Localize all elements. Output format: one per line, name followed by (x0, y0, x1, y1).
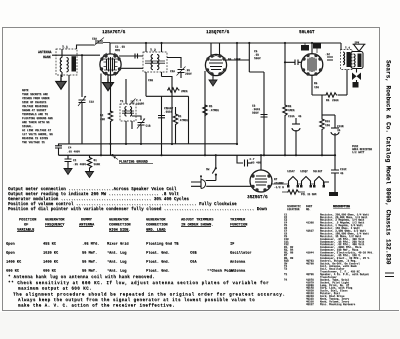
svg-text:Antenna: Antenna (230, 270, 246, 274)
svg-text:470MMF: 470MMF (274, 182, 284, 185)
parts row 4 (284, 220, 365, 224)
svg-text:30: 30 (337, 129, 341, 132)
svg-text:LOCATION: LOCATION (287, 208, 300, 211)
svg-text:50L6GT: 50L6GT (313, 170, 323, 173)
svg-text:** Check sensitivity at 600 KC: ** Check sensitivity at 600 KC. If low, … (8, 281, 269, 286)
parts row 19 (284, 261, 360, 265)
svg-text:.05 400V: .05 400V (67, 150, 80, 153)
junction R5 at bus (204, 154, 206, 156)
svg-text:* Antenna hank lug on antenna: * Antenna hank lug on antenna coil with … (8, 275, 155, 280)
rectifier tube V4 35Z5GT (250, 170, 272, 192)
AC plug (191, 175, 206, 188)
wire T1 to bus (68, 75, 70, 144)
oscillator coil T3 (120, 79, 136, 144)
svg-text:Position of dial pointer with: Position of dial pointer with variable c… (8, 207, 267, 212)
tube V3 50L6GT envelope (301, 54, 323, 76)
svg-text:Open: Open (6, 252, 15, 256)
AVC line (146, 95, 189, 97)
wire V1 to T2 plate (119, 56, 143, 68)
svg-text:455 KC: 455 KC (43, 243, 57, 247)
svg-text:Float. Gnd.: Float. Gnd. (146, 260, 170, 265)
long bus wire upper (58, 143, 237, 145)
svg-text:VIEWED FROM UNDER: VIEWED FROM UNDER (22, 97, 50, 100)
parts row 15 (284, 250, 374, 254)
trimmer capacitor C4 (130, 99, 145, 106)
svg-text:500K: 500K (94, 163, 101, 166)
svg-text:*Ant. Lug: *Ant. Lug (107, 260, 126, 265)
border frame top (2, 27, 380, 29)
parts row 17 (284, 256, 370, 260)
svg-text:.47MEG: .47MEG (209, 109, 219, 112)
output transformer T4 (341, 43, 353, 95)
parts row 5 (284, 223, 363, 227)
heater chevron 1 (287, 177, 299, 188)
table footnotes (8, 275, 286, 309)
svg-text:GENERATOR: GENERATOR (146, 218, 166, 222)
svg-text:500V: 500V (254, 57, 261, 60)
parts row 33 (306, 299, 350, 303)
parts row 14 (284, 248, 359, 252)
svg-text:R9: R9 (314, 82, 318, 85)
parts list header (287, 205, 350, 211)
svg-text:500V: 500V (167, 107, 174, 110)
svg-text:Misc. Mounting Hardware: Misc. Mounting Hardware (320, 302, 356, 306)
electrolytic C10A (288, 115, 302, 155)
junction dot T2 lead right (160, 42, 162, 44)
wire T1 top to trimmer (77, 45, 95, 49)
svg-text:R6: R6 (326, 99, 330, 102)
svg-text:HANK: HANK (43, 55, 51, 59)
junction T3 at B- line (125, 143, 127, 145)
capacitor C6 (170, 67, 192, 79)
resistor R2 (110, 68, 112, 112)
svg-text:50L6GT: 50L6GT (299, 30, 315, 35)
junction R8 at bus (284, 154, 286, 156)
long bus wire lower B- (59, 154, 336, 156)
junction V1 cathode at bus (100, 154, 102, 156)
heater chevron 3 (313, 177, 325, 188)
border frame right (379, 27, 381, 310)
svg-text:ANTENNA: ANTENNA (38, 50, 51, 54)
ground below R1 (86, 169, 94, 178)
svg-text:12SQ7GT/G: 12SQ7GT/G (206, 30, 230, 35)
top rail wire (110, 42, 341, 44)
svg-text:40: 40 (340, 172, 344, 175)
wire V4 top to bus (260, 155, 262, 170)
speaker magnet block (353, 82, 359, 88)
junction R10 at bus (321, 154, 323, 156)
antenna coil T1 (56, 45, 77, 77)
resistor R6 (312, 95, 325, 118)
parts row 6 (284, 226, 360, 230)
resistor R8 (284, 43, 286, 104)
parts row 32 (306, 297, 350, 301)
ground below tube V1 (107, 75, 109, 79)
parts row 12 (284, 242, 365, 246)
svg-text:PIL 35 OHM: PIL 35 OHM (301, 193, 317, 196)
parts row 1 (284, 212, 369, 216)
svg-text:1620 KC: 1620 KC (43, 252, 59, 256)
svg-text:150: 150 (314, 86, 319, 89)
svg-text:R1: R1 (94, 159, 98, 162)
svg-text:GENERATOR: GENERATOR (109, 218, 129, 222)
svg-text:20K: 20K (100, 118, 105, 121)
svg-text:C1A: C1A (89, 101, 94, 104)
junction R4 at B- line (171, 143, 173, 145)
capacitor C5 (158, 96, 173, 155)
svg-text:OF: OF (24, 223, 28, 227)
svg-text:C6B: C6B (190, 252, 197, 256)
wire C1A to bus (81, 103, 83, 144)
svg-text:12SA7GT/G: 12SA7GT/G (102, 30, 126, 35)
svg-text:1400 KC: 1400 KC (43, 261, 59, 265)
parts row 26 (306, 280, 350, 284)
wire V2 grid top (211, 43, 220, 55)
svg-text:35Z5GT/G: 35Z5GT/G (247, 195, 268, 200)
svg-text:1MEG: 1MEG (288, 109, 295, 112)
svg-text:41044: 41044 (306, 251, 314, 254)
parts row 25 (284, 278, 350, 282)
svg-text:40: 40 (298, 115, 302, 118)
resistor R5 (203, 104, 207, 117)
svg-text:C2: C2 (73, 159, 77, 162)
capacitor C10C (331, 155, 347, 192)
capacitor C2 (65, 155, 87, 166)
svg-text:IF: IF (230, 243, 234, 247)
ground below T1 (60, 75, 62, 78)
parts row 28 (306, 286, 353, 290)
svg-text:AC LINE VOLTAGE AT: AC LINE VOLTAGE AT (22, 129, 51, 132)
junction C1B at B- line (140, 143, 142, 145)
svg-text:NOTE: NOTE (22, 89, 29, 92)
svg-text:R8: R8 (288, 105, 292, 108)
svg-text:READING IS GIVEN: READING IS GIVEN (22, 137, 48, 140)
svg-text:1400 KC: 1400 KC (6, 261, 22, 265)
svg-text:R7: R7 (274, 178, 278, 181)
svg-text:CONNECTION: CONNECTION (146, 223, 168, 227)
parts row 29 (306, 288, 348, 292)
alignment table rows (6, 242, 252, 274)
svg-text:.02: .02 (325, 53, 330, 56)
junction C5 line at bus (160, 154, 162, 156)
resistor R7 label (274, 178, 284, 189)
wire AVC to bus (188, 96, 190, 144)
parts row 24 (320, 275, 337, 279)
svg-text:THE VOLTAGE IS: THE VOLTAGE IS (22, 141, 45, 144)
svg-text:50 Mmf.: 50 Mmf. (82, 260, 97, 265)
vertical feed wire (236, 43, 238, 144)
svg-text:.0001: .0001 (164, 111, 172, 114)
capacitor C15 on grid wire (135, 54, 138, 59)
svg-text:NO.: NO. (306, 208, 311, 211)
alignment table headers (17, 218, 247, 232)
svg-text:Float. Gnd.: Float. Gnd. (146, 269, 170, 274)
coupling capacitor C9 (285, 61, 302, 63)
parts row 34 (306, 302, 356, 306)
svg-text:117 VOLTS WHERE, NO: 117 VOLTS WHERE, NO (22, 133, 53, 136)
svg-text:.47MEG: .47MEG (178, 119, 188, 122)
parts row 8 (284, 231, 369, 235)
svg-text:Oscillator: Oscillator (230, 251, 252, 256)
tube V1 12SA7 envelope (100, 53, 121, 76)
svg-text:C10C: C10C (340, 168, 347, 171)
floating ground label (111, 154, 153, 164)
svg-text:T3: T3 (284, 273, 288, 276)
svg-text:T2: T2 (284, 268, 288, 271)
resistor R1 (87, 155, 100, 169)
svg-text:CONNECTION: CONNECTION (109, 223, 131, 227)
svg-text:TRIMMER: TRIMMER (230, 218, 246, 222)
svg-text:40317: 40317 (306, 303, 314, 306)
parts row 3 (284, 218, 365, 222)
border frame left (2, 27, 4, 310)
parts row 11 (284, 240, 365, 244)
power switch SW (206, 154, 217, 180)
resistor R4 (167, 88, 180, 92)
svg-text:150: 150 (325, 124, 330, 127)
parts row 7 (284, 229, 366, 233)
fuse note text (352, 145, 372, 154)
capacitor C4a between buses (55, 144, 80, 155)
svg-text:41308: 41308 (306, 221, 314, 224)
svg-text:DESCRIPTION: DESCRIPTION (333, 205, 350, 208)
heater chevron 2 (300, 177, 312, 188)
speaker field bowtie (352, 73, 361, 81)
svg-text:C6A: C6A (170, 70, 175, 73)
parts row 22 (320, 269, 360, 273)
svg-text:600 KC: 600 KC (6, 270, 20, 274)
svg-text:40790: 40790 (306, 262, 314, 265)
svg-text:500V: 500V (252, 112, 259, 115)
svg-text:SW: SW (206, 168, 210, 171)
pilot light (329, 192, 338, 196)
wire heater string right (324, 182, 329, 187)
svg-text:2000: 2000 (332, 99, 339, 102)
svg-text:C10B: C10B (337, 125, 344, 128)
wire V2 plate up to rail (225, 43, 264, 72)
svg-text:Sears, Roebuck & Co. Catalog: Sears, Roebuck & Co. Catalog Model 8000,… (385, 60, 392, 265)
svg-text:GENERATOR: GENERATOR (45, 218, 65, 222)
svg-text:200V: 200V (185, 73, 192, 76)
svg-text:ADJUST TRIMMERS: ADJUST TRIMMERS (181, 218, 214, 222)
svg-text:POSITION: POSITION (19, 218, 36, 222)
svg-text:Open: Open (6, 243, 15, 247)
svg-text:R5: R5 (209, 105, 213, 108)
junction dot T2 lead left (145, 42, 147, 44)
svg-text:C6A: C6A (190, 261, 197, 265)
svg-text:.05 400V: .05 400V (73, 163, 86, 166)
junction feed line at B- line (236, 143, 238, 145)
svg-text:MFD: MFD (115, 49, 120, 52)
svg-text:FLOATING GROUND: FLOATING GROUND (119, 160, 148, 164)
tube V2 12SQ7 envelope (205, 54, 226, 75)
svg-text:ARE TAKEN WITH NO: ARE TAKEN WITH NO (22, 121, 50, 124)
wire T2 to V2 grid (162, 58, 182, 93)
junction C10A at bus (295, 154, 297, 156)
capacitor C12 (325, 53, 333, 60)
svg-text:DUMMY: DUMMY (81, 218, 93, 222)
variable capacitor C1A (78, 96, 86, 106)
svg-text:50 Mmf.: 50 Mmf. (82, 251, 97, 256)
parts row 2 (284, 215, 368, 219)
wire tube V1 top (109, 43, 111, 55)
svg-text:C10A: C10A (288, 115, 295, 118)
svg-text:*Ant. Lug: *Ant. Lug (107, 269, 126, 274)
resistor R10 (320, 118, 330, 155)
svg-text:T.2: T.2 (150, 48, 156, 52)
svg-text:Generator modulation .........: Generator modulation ...................… (8, 197, 189, 202)
border frame bottom (2, 310, 399, 312)
svg-text:.05 Mfd.: .05 Mfd. (82, 242, 99, 247)
svg-text:.05: .05 (120, 46, 125, 49)
svg-text:100PF: 100PF (136, 103, 144, 106)
parts row 21 (284, 267, 345, 271)
wire antenna through T1 to tube V1 (52, 54, 100, 56)
capacitor C7 (237, 155, 261, 166)
svg-text:Antenna: Antenna (230, 261, 246, 265)
wire V3 cathode down (311, 76, 313, 96)
svg-text:600 KC: 600 KC (43, 270, 57, 274)
note text block (22, 89, 53, 144)
svg-text:T.1: T.1 (62, 45, 68, 49)
parts row 13 (284, 245, 362, 249)
svg-text:.05 400: .05 400 (250, 161, 262, 164)
variable capacitor C1B (137, 119, 145, 129)
electrolytic C10B (322, 115, 344, 155)
svg-text:1/2 WATT: 1/2 WATT (352, 150, 365, 154)
svg-text:Always keep the output from th: Always keep the output from the signal g… (18, 298, 255, 303)
svg-text:C5A: C5A (92, 38, 97, 41)
svg-text:T3: T3 (120, 100, 124, 103)
ground below C2 (64, 166, 72, 175)
parts row 9 (284, 234, 362, 238)
junction C10B at bus (334, 154, 336, 156)
svg-text:R2: R2 (100, 114, 104, 117)
svg-text:VOLTAGE READINGS: VOLTAGE READINGS (22, 105, 48, 108)
alignment instructions (8, 187, 267, 212)
svg-text:SIDE OF CHASSIS: SIDE OF CHASSIS (22, 101, 47, 104)
svg-text:C1B: C1B (146, 125, 151, 128)
svg-text:TUBE SOCKETS ARE: TUBE SOCKETS ARE (22, 93, 48, 96)
wire rectifier to heaters (272, 183, 314, 185)
wire tube V1 bottom to bus (100, 74, 102, 156)
svg-text:50 Mmf.: 50 Mmf. (82, 269, 97, 274)
parts row 30 (306, 291, 340, 295)
svg-text:*Ant. Lug: *Ant. Lug (107, 251, 126, 256)
svg-text:make the A. V. C. action of th: make the A. V. C. action of the receiver… (18, 304, 175, 309)
parts row 20 (284, 264, 357, 268)
sidebar title (385, 60, 395, 277)
svg-text:R10: R10 (325, 120, 330, 123)
svg-text:T.4: T.4 (345, 47, 350, 50)
svg-text:Mixer Grid: Mixer Grid (107, 242, 129, 247)
svg-text:T4: T4 (284, 279, 288, 282)
grid resistor cluster above V3 (301, 43, 321, 53)
svg-text:40796: 40796 (306, 273, 314, 276)
volume control R3 (173, 107, 188, 144)
parts row 16 (284, 253, 361, 257)
parts row 23 (284, 272, 369, 276)
ground below tube V2 (212, 74, 214, 78)
svg-text:The alignment procedure should: The alignment procedure should be repeat… (13, 293, 286, 298)
svg-text:maximum output at 600 KC.: maximum output at 600 KC. (18, 287, 92, 292)
svg-text:C6B: C6B (148, 79, 153, 82)
svg-text:FLOATING GROUND AND: FLOATING GROUND AND (22, 117, 53, 120)
svg-text:-1/2 W: -1/2 W (274, 185, 284, 189)
svg-text:41617: 41617 (306, 230, 314, 233)
parts row 27 (306, 283, 350, 287)
svg-text:Output meter connection ......: Output meter connection ................… (8, 187, 177, 192)
trimmer C5A (92, 38, 110, 46)
parts row 18 (284, 259, 357, 263)
parts row 31 (306, 294, 345, 298)
junction R2 at B- line (109, 143, 111, 145)
capacitor C8 (263, 72, 265, 155)
svg-text:2MEG: 2MEG (181, 90, 188, 93)
svg-text:Position of volume control ...: Position of volume control .............… (8, 202, 237, 207)
parts list (284, 205, 374, 306)
wire R4 down to bus (171, 92, 173, 144)
wire C1A feed (81, 55, 83, 97)
wire V3 top (311, 43, 313, 53)
parts row 10 (284, 237, 365, 241)
svg-text:R3: R3 (178, 115, 182, 118)
svg-text:C4: C4 (68, 146, 72, 149)
wire plug to rectifier (206, 185, 251, 187)
svg-text:Output meter reading to indica: Output meter reading to indicate 200 MW … (8, 192, 179, 197)
svg-text:Floating Gnd TB: Floating Gnd TB (146, 242, 179, 247)
pilot resistor (287, 190, 300, 194)
wire V2 cathode to bus (204, 71, 206, 155)
svg-text:Float. Gnd.: Float. Gnd. (146, 251, 170, 256)
svg-text:TERMINALS ARE TO: TERMINALS ARE TO (22, 113, 48, 116)
svg-text:SHOWN AT SOCKET: SHOWN AT SOCKET (22, 109, 47, 112)
IF transformer T2 (143, 43, 167, 96)
speaker SPK (351, 41, 366, 82)
junction C8 at bus (263, 154, 265, 156)
svg-text:12SA7: 12SA7 (287, 170, 295, 173)
svg-text:SIGNAL.: SIGNAL. (22, 125, 33, 128)
svg-text:12SQ7: 12SQ7 (300, 170, 308, 173)
